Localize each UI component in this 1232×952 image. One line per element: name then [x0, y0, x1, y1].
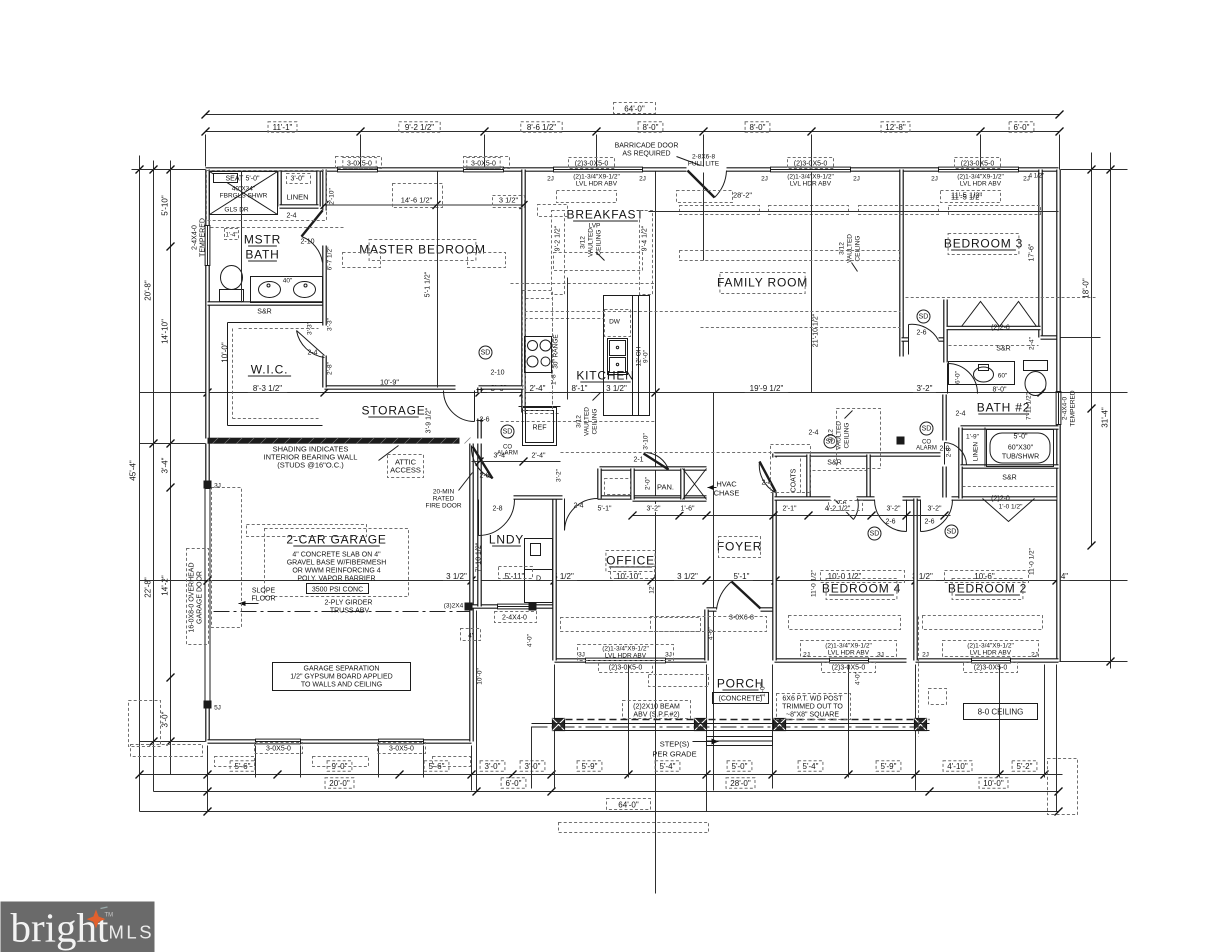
svg-text:SD: SD	[481, 350, 491, 357]
svg-text:12': 12'	[649, 585, 656, 593]
svg-text:11'-5 1/2": 11'-5 1/2"	[951, 191, 982, 200]
svg-text:(2)1-3/4"X9-1/2": (2)1-3/4"X9-1/2"	[825, 643, 872, 650]
svg-text:2-4: 2-4	[573, 503, 583, 510]
svg-text:7'-11 1/2": 7'-11 1/2"	[1026, 392, 1033, 420]
svg-text:2-8: 2-8	[492, 506, 502, 513]
garage left wall	[205, 444, 210, 742]
svg-text:LVL HDR ABV: LVL HDR ABV	[960, 181, 1002, 188]
window labels top	[343, 158, 376, 169]
svg-text:LINEN: LINEN	[286, 193, 308, 202]
svg-text:(3)2X4: (3)2X4	[444, 603, 464, 610]
svg-text:2'-1": 2'-1"	[783, 506, 797, 513]
svg-text:64'-0": 64'-0"	[624, 105, 645, 114]
svg-text:CEILING: CEILING	[844, 422, 851, 448]
svg-text:LVL HDR ABV: LVL HDR ABV	[828, 650, 870, 657]
bedroom2 closet top wall	[961, 464, 1059, 469]
svg-text:STEP(S): STEP(S)	[660, 740, 690, 749]
svg-text:45'-4": 45'-4"	[129, 460, 138, 481]
svg-text:5'-0": 5'-0"	[246, 176, 260, 183]
svg-text:LINEN: LINEN	[973, 442, 980, 461]
svg-text:9'-2 1/2": 9'-2 1/2"	[405, 123, 434, 132]
bedroom 3 west wall	[899, 170, 904, 357]
svg-text:2J: 2J	[547, 176, 554, 183]
svg-text:(2)3-0X5-0: (2)3-0X5-0	[832, 665, 866, 672]
svg-text:6'-0": 6'-0"	[506, 779, 522, 788]
svg-text:FULL LITE: FULL LITE	[688, 161, 720, 168]
svg-text:AS REQUIRED: AS REQUIRED	[622, 151, 670, 158]
svg-text:3-0X5-0: 3-0X5-0	[471, 161, 496, 168]
overall top dimension line 64ft	[206, 114, 1060, 116]
svg-text:(STUDS @16"O.C.): (STUDS @16"O.C.)	[277, 461, 344, 470]
svg-text:3J: 3J	[665, 652, 672, 659]
svg-text:11'-0 1/2": 11'-0 1/2"	[1029, 547, 1036, 575]
svg-text:SD: SD	[922, 426, 932, 433]
svg-text:CEILING: CEILING	[596, 229, 603, 255]
svg-text:COATS: COATS	[791, 468, 798, 492]
svg-text:(2)3-0X5-0: (2)3-0X5-0	[575, 161, 609, 168]
svg-text:2J: 2J	[1031, 652, 1038, 659]
top dimension string	[206, 131, 1060, 133]
svg-text:3'-2": 3'-2"	[556, 468, 563, 482]
svg-text:3'-2": 3'-2"	[917, 384, 933, 393]
right dimension line 18'-0"	[1091, 153, 1093, 546]
door: w.i.c. door	[297, 331, 325, 356]
svg-text:14'-10": 14'-10"	[161, 319, 170, 344]
garage bottom wall	[208, 739, 472, 744]
svg-text:28'-2": 28'-2"	[733, 191, 752, 200]
svg-text:21'-10 1/2": 21'-10 1/2"	[813, 313, 820, 347]
svg-text:3'-0": 3'-0"	[161, 711, 170, 727]
storage east wall	[477, 388, 482, 439]
svg-text:5'-4": 5'-4"	[803, 762, 819, 771]
svg-text:LNDY: LNDY	[489, 533, 524, 547]
svg-text:OFFICE: OFFICE	[606, 554, 655, 568]
svg-text:3/12: 3/12	[580, 236, 587, 249]
girder truss dash-dot line	[214, 611, 470, 613]
front wall bracing dashed rows	[561, 618, 701, 632]
svg-text:18'-0": 18'-0"	[1082, 278, 1091, 299]
svg-text:(2)3-0X5-0: (2)3-0X5-0	[609, 665, 643, 672]
hvac chase with X	[683, 469, 707, 500]
svg-text:2-1: 2-1	[633, 457, 643, 464]
svg-text:~8"X8" SQUARE: ~8"X8" SQUARE	[786, 712, 839, 719]
svg-text:2J: 2J	[853, 176, 860, 183]
svg-text:(2)1-3/4"X9-1/2": (2)1-3/4"X9-1/2"	[602, 646, 649, 653]
svg-text:7'-10 1/2": 7'-10 1/2"	[476, 542, 483, 572]
svg-text:2J: 2J	[803, 652, 810, 659]
family room south wall	[775, 452, 907, 457]
garage right wall	[469, 444, 474, 742]
svg-text:PAN.: PAN.	[657, 483, 674, 492]
bedroom3 closet front wall	[947, 326, 1041, 331]
bath2 vanity	[949, 362, 1015, 385]
svg-text:REF: REF	[533, 425, 547, 432]
svg-text:2'-10": 2'-10"	[329, 188, 336, 205]
door: bedroom 2 door 2-6	[920, 500, 922, 532]
front door wall	[707, 607, 773, 612]
svg-text:FBRGLS SHWR: FBRGLS SHWR	[220, 193, 268, 200]
left extension lines	[132, 170, 206, 775]
porch slab edge and centerline	[532, 723, 930, 725]
bath 2 west wall	[942, 395, 947, 498]
svg-text:TM: TM	[105, 913, 114, 919]
wall bracing dashed boxes master/breakfast	[343, 253, 381, 268]
svg-text:2'-0": 2'-0"	[645, 476, 652, 490]
window 3-0X5-0 master bedroom	[338, 167, 378, 172]
svg-text:2-4: 2-4	[307, 350, 317, 357]
svg-text:CEILING: CEILING	[855, 235, 862, 261]
exterior right wall	[1056, 170, 1061, 662]
door: front entry door 3-0X6-8	[732, 582, 761, 609]
svg-text:6'-0": 6'-0"	[1014, 123, 1030, 132]
svg-text:VAULTED: VAULTED	[588, 228, 595, 257]
bottom extension lines	[208, 611, 1057, 812]
svg-text:2-4X4-0: 2-4X4-0	[502, 615, 527, 622]
svg-text:3J: 3J	[877, 652, 884, 659]
door: garage fire door	[473, 447, 493, 479]
bottom dimension string A	[171, 774, 1063, 776]
svg-text:FAMILY ROOM: FAMILY ROOM	[717, 276, 808, 290]
svg-text:LVL HDR ABV: LVL HDR ABV	[970, 650, 1012, 657]
office window (2)3-0X5-0	[586, 658, 666, 663]
svg-text:20'-0": 20'-0"	[329, 779, 350, 788]
svg-text:2-8: 2-8	[946, 447, 953, 457]
master toilet	[220, 290, 244, 302]
door: bedroom 4 hall door 2-6	[835, 500, 854, 520]
door: laundry door 2-8	[478, 500, 480, 536]
svg-text:11'-0 1/2": 11'-0 1/2"	[811, 569, 818, 597]
svg-text:2J: 2J	[922, 652, 929, 659]
svg-text:LVL HDR ABV: LVL HDR ABV	[605, 653, 647, 660]
svg-text:20-MIN: 20-MIN	[433, 489, 455, 496]
window (2)3-0X5-0 family room	[771, 167, 851, 172]
svg-text:D: D	[536, 576, 541, 583]
svg-text:3 1/2": 3 1/2"	[606, 384, 627, 393]
svg-text:FOYER: FOYER	[717, 540, 762, 554]
svg-text:STORAGE: STORAGE	[361, 404, 425, 418]
washer dryer stack in laundry	[525, 539, 553, 570]
svg-text:4 1/2": 4 1/2"	[1029, 174, 1044, 180]
svg-text:3 1/2": 3 1/2"	[499, 196, 519, 205]
smoke detectors	[501, 425, 514, 438]
svg-text:2-4: 2-4	[955, 411, 965, 418]
svg-text:12' OH: 12' OH	[636, 346, 643, 366]
bedroom 3 south wall	[902, 337, 947, 342]
svg-text:VAULTED: VAULTED	[847, 234, 854, 263]
door: hall door 2-4 at foyer	[760, 462, 776, 492]
svg-text:4'-0": 4'-0"	[855, 671, 862, 685]
svg-text:9'-4 1/2": 9'-4 1/2"	[642, 225, 649, 251]
garage window 3-0X5-0 left	[256, 739, 301, 744]
svg-text:3'-4": 3'-4"	[161, 457, 170, 473]
svg-text:2-PLY GIRDER: 2-PLY GIRDER	[325, 600, 373, 607]
porch beam dashed line	[555, 719, 930, 721]
svg-text:8'-1": 8'-1"	[572, 384, 588, 393]
svg-text:KITCHEN: KITCHEN	[576, 369, 634, 383]
pantry walls	[600, 469, 707, 500]
svg-text:TUB/SHWR: TUB/SHWR	[1002, 454, 1039, 461]
svg-text:1'-4": 1'-4"	[226, 233, 238, 239]
svg-text:10'-6": 10'-6"	[974, 572, 995, 581]
svg-text:GARAGE DOOR: GARAGE DOOR	[197, 571, 204, 624]
label 64'-0" top	[616, 104, 654, 113]
svg-text:9'-2 1/2": 9'-2 1/2"	[555, 225, 562, 251]
svg-text:TEMPERED: TEMPERED	[1070, 390, 1077, 426]
svg-text:5'-1": 5'-1"	[734, 572, 750, 581]
svg-text:3/12: 3/12	[576, 415, 583, 428]
garage window 3-0X5-0 right	[379, 739, 424, 744]
pantry nook west wall	[597, 469, 602, 499]
svg-text:40"X34": 40"X34"	[232, 186, 256, 193]
svg-text:8-0 CEILING: 8-0 CEILING	[978, 708, 1024, 717]
svg-text:3'-2": 3'-2"	[928, 506, 942, 513]
svg-text:BATH: BATH	[245, 248, 279, 262]
bright MLS logo star	[87, 910, 106, 929]
svg-text:2J: 2J	[639, 176, 646, 183]
svg-text:64'-0": 64'-0"	[618, 801, 639, 810]
svg-text:MASTER BEDROOM: MASTER BEDROOM	[359, 243, 486, 257]
svg-text:SD: SD	[919, 314, 929, 321]
svg-text:2'-4": 2'-4"	[1029, 336, 1036, 350]
svg-text:4'-10": 4'-10"	[947, 762, 968, 771]
bright MLS logo tm and accent	[101, 907, 108, 909]
porch concrete label	[713, 693, 769, 704]
svg-text:VAULTED: VAULTED	[584, 407, 591, 436]
svg-text:5'-10": 5'-10"	[161, 195, 170, 216]
svg-text:8'-0": 8'-0"	[993, 387, 1007, 394]
svg-text:2-8X6-8: 2-8X6-8	[692, 154, 716, 161]
svg-text:5'-4": 5'-4"	[660, 762, 676, 771]
svg-text:S&R: S&R	[257, 309, 271, 316]
svg-text:ACCESS: ACCESS	[390, 466, 421, 475]
kitchen hall dims	[472, 461, 561, 463]
interior dim line y392	[140, 392, 1128, 394]
svg-text:8'-0": 8'-0"	[750, 123, 766, 132]
bath 2 window 2-4X4-0 tempered	[1056, 392, 1061, 425]
coats closet east wall	[806, 455, 811, 499]
svg-text:30" RANGE: 30" RANGE	[553, 334, 560, 369]
linen closet walls	[280, 172, 319, 207]
svg-text:2-6: 2-6	[885, 519, 895, 526]
master bath east wall	[322, 170, 327, 388]
svg-text:10'-0": 10'-0"	[983, 779, 1004, 788]
svg-text:2-CAR GARAGE: 2-CAR GARAGE	[286, 533, 386, 547]
window (2)3-0X5-0 breakfast	[554, 167, 643, 172]
svg-text:3-0X6-8: 3-0X6-8	[729, 615, 754, 622]
kitchen/master west wall	[521, 170, 526, 413]
svg-text:5J: 5J	[214, 705, 221, 712]
master shower 40x34 fiberglass	[210, 172, 278, 215]
svg-text:GRAVEL BASE W/FIBERMESH: GRAVEL BASE W/FIBERMESH	[287, 560, 387, 567]
interior wall right of bedroom 3	[1038, 170, 1043, 338]
porch notch left wall	[704, 610, 709, 661]
junction markers on left wall	[204, 481, 212, 489]
svg-text:2J: 2J	[931, 176, 938, 183]
svg-text:MSTR: MSTR	[244, 233, 281, 247]
wic shelving dashes	[228, 323, 323, 426]
svg-text:8'-6 1/2": 8'-6 1/2"	[527, 123, 556, 132]
svg-text:LVL HDR ABV: LVL HDR ABV	[790, 181, 832, 188]
svg-text:3-0X5-0: 3-0X5-0	[266, 746, 291, 753]
svg-text:PORCH: PORCH	[717, 677, 764, 691]
svg-text:GLS DR: GLS DR	[224, 207, 249, 214]
svg-text:5'-1": 5'-1"	[598, 506, 612, 513]
svg-text:(2)1-3/4"X9-1/2": (2)1-3/4"X9-1/2"	[967, 643, 1014, 650]
exterior left wall	[205, 170, 210, 439]
laundry/office wall	[552, 498, 557, 661]
svg-text:3/12: 3/12	[828, 429, 835, 442]
svg-text:2-6: 2-6	[479, 417, 489, 424]
bedroom4 closet east wall	[866, 455, 871, 499]
svg-text:CEILING: CEILING	[592, 408, 599, 434]
svg-text:S&R: S&R	[827, 460, 841, 467]
svg-text:3'-9 1/2": 3'-9 1/2"	[426, 407, 433, 433]
porch steps	[707, 737, 773, 746]
master vanity with double sinks	[251, 277, 323, 303]
svg-text:8'-3 1/2": 8'-3 1/2"	[253, 384, 282, 393]
svg-text:3'-3": 3'-3"	[327, 317, 334, 331]
svg-text:16-0X8-0 OVERHEAD: 16-0X8-0 OVERHEAD	[189, 562, 196, 632]
svg-text:31'-4": 31'-4"	[1101, 407, 1110, 428]
svg-text:2-10: 2-10	[300, 239, 314, 246]
tub room west wall	[958, 428, 963, 467]
office front wall	[555, 658, 707, 663]
svg-text:9'-0": 9'-0"	[643, 349, 650, 363]
svg-text:HVAC: HVAC	[716, 480, 737, 489]
svg-text:10'-9": 10'-9"	[380, 378, 399, 387]
svg-text:SD: SD	[947, 529, 957, 536]
svg-text:(2)2X10 BEAM: (2)2X10 BEAM	[633, 704, 680, 711]
garage overhead door leaf	[205, 489, 210, 703]
left dimension line segments 5'-10" etc	[170, 161, 172, 775]
laundry window 2-4X4-0	[498, 604, 532, 609]
svg-text:40": 40"	[283, 278, 293, 285]
svg-text:60": 60"	[998, 373, 1008, 380]
svg-text:2-8: 2-8	[479, 473, 489, 480]
window 2-4X4-0 master bath (left wall)	[205, 226, 210, 266]
left dimension line 20'-8" / 22'-8"	[153, 161, 155, 792]
svg-text:S&R: S&R	[1002, 475, 1016, 482]
svg-text:14'-2": 14'-2"	[161, 575, 170, 596]
interior dim line y580	[140, 580, 1128, 582]
svg-text:3-0X5-0: 3-0X5-0	[389, 746, 414, 753]
svg-text:2-4: 2-4	[808, 430, 818, 437]
svg-text:19'-9 1/2": 19'-9 1/2"	[750, 384, 784, 393]
wall at bath 2 top	[1041, 335, 1059, 340]
bedroom 2 closet bifold doors	[983, 499, 1035, 522]
master bath south wall	[208, 301, 325, 306]
door: master bath entry	[302, 211, 323, 237]
svg-text:10'-10": 10'-10"	[616, 572, 641, 581]
refrigerator	[523, 408, 557, 446]
door: bedroom 4 door 2-6	[906, 500, 908, 532]
bottom overall dimension 64'-0"	[140, 811, 1059, 813]
kitchen island with dw and sink	[604, 296, 650, 416]
svg-text:SD: SD	[503, 429, 513, 436]
svg-text:3'-2": 3'-2"	[887, 506, 901, 513]
wall bracing dashed row (family/bed3)	[680, 206, 760, 215]
svg-text:1'-6": 1'-6"	[681, 506, 695, 513]
svg-text:5'-2": 5'-2"	[1017, 762, 1033, 771]
door: master bedroom door	[474, 391, 476, 422]
svg-text:2-4X4-0: 2-4X4-0	[192, 225, 199, 250]
porch posts	[553, 719, 565, 731]
svg-text:6'-7 1/2": 6'-7 1/2"	[327, 246, 334, 270]
svg-text:5'-9": 5'-9"	[881, 762, 897, 771]
vertical extension line x713	[713, 393, 715, 791]
svg-text:5'-1 1/2": 5'-1 1/2"	[425, 271, 432, 297]
svg-text:BEDROOM 3: BEDROOM 3	[944, 237, 1023, 251]
svg-text:3-0X5-0: 3-0X5-0	[347, 161, 372, 168]
door: office door 2-4	[564, 499, 566, 531]
bedroom divider wall	[913, 499, 918, 661]
svg-text:OR WWM REINFORCING 4: OR WWM REINFORCING 4	[292, 568, 380, 575]
tub room north wall	[961, 425, 1059, 430]
bottom dimension string B	[154, 791, 1059, 793]
svg-text:3'-0": 3'-0"	[291, 176, 305, 183]
svg-text:20'-8": 20'-8"	[144, 280, 153, 301]
bath 2 south wall	[907, 452, 941, 457]
door: linen vestibule door 2-0	[944, 443, 946, 465]
svg-text:CHASE: CHASE	[714, 489, 740, 498]
svg-text:3500 PSI CONC: 3500 PSI CONC	[312, 587, 363, 594]
exterior top wall	[206, 167, 1059, 172]
master window dim line	[325, 204, 524, 206]
svg-text:LVP: LVP	[589, 223, 601, 230]
svg-text:6'-0": 6'-0"	[955, 370, 962, 384]
svg-text:TO WALLS AND CEILING: TO WALLS AND CEILING	[301, 682, 382, 689]
svg-text:(2)1-3/4"X9-1/2": (2)1-3/4"X9-1/2"	[957, 174, 1004, 181]
svg-text:5'-0": 5'-0"	[732, 762, 748, 771]
svg-text:2J: 2J	[1023, 176, 1030, 183]
svg-text:2-4: 2-4	[286, 213, 296, 220]
svg-text:8'-0": 8'-0"	[643, 123, 659, 132]
svg-text:3'-10": 3'-10"	[643, 433, 650, 450]
svg-text:SLOPE: SLOPE	[252, 588, 276, 595]
svg-text:11'-1": 11'-1"	[273, 123, 293, 132]
laundry bottom wall	[471, 604, 555, 609]
svg-text:(2)3-0X5-0: (2)3-0X5-0	[961, 161, 995, 168]
svg-text:RATED: RATED	[433, 496, 455, 503]
svg-text:12'-8": 12'-8"	[885, 123, 906, 132]
svg-text:MLS: MLS	[109, 922, 155, 943]
svg-text:2'-8": 2'-8"	[327, 361, 334, 375]
svg-text:3/12: 3/12	[839, 242, 846, 255]
pantry side walls	[633, 469, 683, 500]
interior bearing wall (shaded)	[208, 438, 460, 444]
svg-text:ABV (S.P.F.#2): ABV (S.P.F.#2)	[633, 712, 679, 719]
svg-text:(2)1-3/4"X9-1/2": (2)1-3/4"X9-1/2"	[573, 174, 620, 181]
svg-text:4" CONCRETE SLAB ON 4": 4" CONCRETE SLAB ON 4"	[292, 552, 381, 559]
svg-text:LVL HDR ABV: LVL HDR ABV	[576, 181, 618, 188]
svg-text:4'-0": 4'-0"	[708, 626, 715, 640]
svg-text:3'-2": 3'-2"	[647, 506, 661, 513]
svg-text:2-10: 2-10	[490, 370, 504, 377]
svg-text:17'-6": 17'-6"	[1029, 243, 1036, 261]
garage window labels bottom	[255, 743, 303, 754]
svg-text:28'-0": 28'-0"	[730, 779, 751, 788]
svg-text:5'-6": 5'-6"	[235, 762, 251, 771]
hall dim line	[633, 515, 951, 517]
svg-text:2J: 2J	[761, 176, 768, 183]
svg-text:W.I.C.: W.I.C.	[251, 363, 288, 377]
steps arrow	[693, 741, 719, 743]
svg-text:GARAGE SEPARATION: GARAGE SEPARATION	[304, 666, 380, 673]
family room corner post	[897, 437, 905, 445]
closet rods dashed	[801, 346, 1056, 495]
bath2 toilet	[1024, 361, 1048, 371]
svg-text:DW: DW	[609, 319, 621, 326]
